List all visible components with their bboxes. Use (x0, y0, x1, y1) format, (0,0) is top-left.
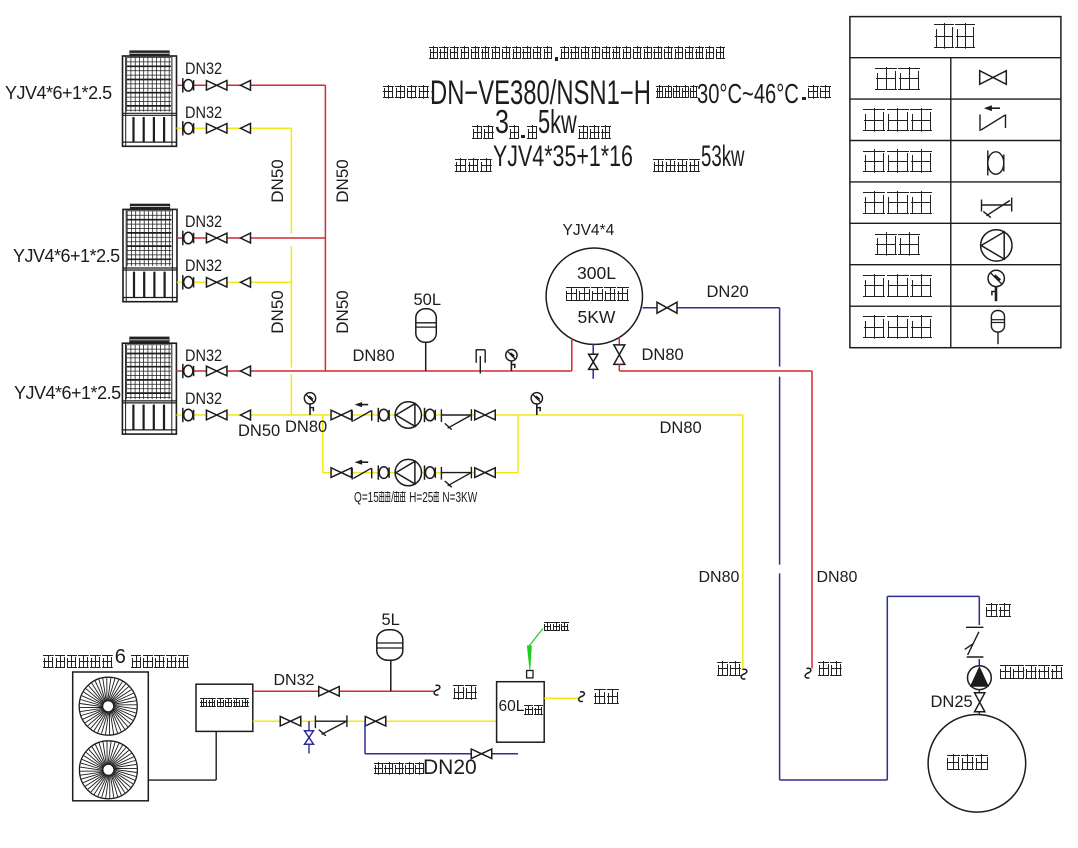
label indoor hydraulic module (200, 698, 250, 710)
pressure gauge on return header (left) (304, 393, 315, 404)
pipe HP1 supply stub (177, 84, 183, 86)
pipe HP3 return stub (176, 414, 182, 416)
pipe HP3 supply stub (176, 370, 182, 372)
wire: 50L tank stem to supply header (425, 343, 427, 371)
wire: auto make-up branch (blue) (365, 721, 518, 754)
flexible connection on HP1 return outlet (182, 121, 184, 135)
label DN32 HP2 supply (185, 214, 222, 231)
flexible connection before pump P2 (377, 465, 379, 479)
legend label: expansion tank (863, 315, 933, 343)
drain valve under tank (589, 354, 598, 362)
note line 2: model type (383, 85, 434, 101)
valve at outlet of pump P1 (475, 410, 485, 420)
expansion tank 50L (416, 309, 437, 343)
label DN32 HP2 return (185, 258, 222, 275)
tank outlet valve (black) (614, 345, 625, 355)
label (return water) at yellow drop (717, 661, 742, 680)
label 50L (414, 292, 442, 309)
legend label: valve (875, 67, 922, 95)
heat pump unit HP3 top cap (130, 337, 169, 343)
wire: 60L tank outlet (yellow) (544, 697, 579, 699)
wire: tank left connection (red) (571, 339, 573, 372)
label DN80 on supply drop (817, 570, 858, 587)
check valve of pump P1 (351, 410, 353, 422)
drain tee with small valve (blue) (308, 721, 310, 753)
valve on DN20 make-up line (657, 302, 667, 313)
label DN32 HP1 return (185, 105, 222, 122)
label DN50 rotated (red riser upper) (334, 159, 352, 202)
indoor hydraulic module box (196, 684, 253, 731)
label DN32 bottom (274, 673, 315, 690)
60L outlet squiggle (579, 692, 585, 702)
check valve on HP1 supply (241, 80, 251, 90)
wire: red header tank outlet to supply drop (619, 371, 812, 669)
flexible connection on HP3 supply outlet (182, 364, 184, 378)
heat pump unit HP3 casing (122, 343, 176, 434)
pressure gauge on supply header (506, 350, 517, 361)
check valve on HP3 return (241, 410, 251, 420)
wire: floor-heating return (yellow) (253, 720, 497, 722)
label YJV4*6+1*2.5 for HP2 (13, 247, 120, 266)
fan 1 of module (79, 677, 137, 735)
wire: 5L tank stem (390, 660, 392, 691)
check valve on HP1 return (241, 123, 251, 133)
label 60L tank (499, 701, 544, 715)
legend symbol: flexible connection (988, 151, 1004, 176)
label DN50 rotated (yellow riser upper) (269, 159, 287, 202)
note line 3: quantity (472, 115, 612, 139)
label DN32 HP3 return (185, 391, 222, 408)
check valve on HP2 supply (241, 233, 251, 243)
valve at inlet of pump P2 (331, 468, 341, 478)
label auto make-up valve (374, 762, 425, 778)
automatic air vent on supply header (476, 350, 486, 374)
heat pump unit HP1 casing (123, 56, 177, 146)
label DN80 right of tank (642, 347, 684, 364)
legend symbol: water pump (981, 230, 1012, 261)
heat pump unit HP2 coil grid (127, 211, 171, 266)
heat pump unit HP3 lower grille (122, 405, 176, 430)
label DN80 on return header right (660, 420, 702, 437)
label DN32 HP3 supply (185, 348, 222, 365)
Midea heat pump module cabinet (73, 672, 149, 801)
valve on HP1 supply (DN32) (206, 81, 216, 91)
tank text 5KW (578, 308, 616, 326)
pipe HP2 supply stub (177, 237, 183, 239)
label DN32 HP1 supply (185, 61, 222, 78)
label DN50 rotated (red riser lower) (334, 290, 352, 333)
wire: DN20 make-up line (blue) (643, 308, 980, 780)
pump branch upper connecting pipes (yellow) (323, 415, 518, 473)
label YJV4*4 above tank (563, 223, 615, 239)
wire: HP1 supply pipe to red riser (193, 84, 325, 86)
valve at outlet of pump P2 (475, 468, 485, 478)
legend label: flexible connection (863, 149, 933, 177)
label (return water) at 60L tank (594, 689, 620, 708)
label make-up water (986, 603, 1012, 620)
valve DN25 above make-up tank (975, 693, 985, 703)
heat pump unit HP1 coil grid (127, 58, 171, 112)
heat pump unit HP3 coil grid (127, 345, 171, 399)
supply end squiggle (805, 668, 811, 678)
label DN20 on make-up line (707, 284, 749, 301)
pipe HP2 return stub (177, 281, 183, 283)
legend label: strainer (863, 191, 933, 219)
label DN80 on supply header (353, 348, 395, 365)
label air vent (green) (544, 622, 570, 634)
label DN50 (HP3 return) (238, 423, 280, 440)
strainer after pump P2 (440, 467, 442, 480)
heat pump unit HP3 separator (122, 400, 176, 402)
valve on HP2 supply (DN32) (206, 233, 216, 243)
label make-up tank (947, 754, 990, 775)
main return header DN80 (yellow) (193, 415, 743, 670)
flexible connection on HP3 return outlet (182, 408, 184, 422)
label (supply water) at red drop (818, 661, 843, 680)
fan 2 of module (79, 741, 137, 799)
valve on HP1 return (DN32) (206, 124, 216, 134)
circulation pump pump P1 (395, 402, 421, 428)
tank text 300L (577, 264, 616, 282)
label YJV4*6+1*2.5 for HP3 (14, 384, 121, 403)
check valve of pump P2 (351, 468, 353, 480)
pressure gauge on return header (right) (531, 393, 542, 404)
valve on floor return (280, 716, 290, 726)
legend label: pressure gauge (863, 274, 933, 302)
heat pump unit HP2 top cap (131, 204, 170, 209)
yellow return riser DN50 (290, 128, 292, 415)
wire: make-up drop pipe (blue) (978, 596, 980, 714)
red supply riser DN50 (324, 85, 326, 371)
legend symbol: expansion tank (991, 311, 1004, 345)
flexible connection after pump P2 (424, 465, 426, 479)
check valve on HP3 supply (241, 366, 251, 376)
flexible connection before pump P1 (377, 408, 379, 422)
legend title (934, 23, 976, 54)
legend label: check valve (863, 108, 933, 136)
circulation pump pump P2 (395, 459, 421, 485)
strainer on floor return (314, 716, 316, 729)
wire: HP1 return pipe to yellow riser (193, 127, 291, 129)
make-up water tank (circle) (928, 715, 1026, 813)
60L buffer tank box (497, 682, 545, 743)
pipe HP1 return stub (177, 127, 183, 129)
check valve on HP2 return (241, 277, 251, 287)
small drain valve (305, 731, 314, 738)
tank text (electric heating water tank) (566, 287, 630, 306)
heat pump unit HP1 separator (123, 112, 177, 114)
label DN25 (931, 694, 973, 711)
pump duty text Q=15m3/h H=25m N=3KW (354, 490, 477, 506)
valve on HP3 supply (DN32) (206, 366, 216, 376)
flexible connection after pump P1 (424, 408, 426, 422)
note line 1 (design note) (429, 46, 726, 62)
main hot supply header DN80 (red) (193, 370, 572, 372)
flexible connection on HP2 supply outlet (182, 231, 184, 245)
flexible connection on HP1 supply outlet (182, 78, 184, 92)
pump branch infill pipes (yellow) (389, 415, 475, 473)
wire: module to cabinet (black) (148, 731, 216, 780)
label (supply water) bottom (453, 685, 478, 704)
heat pump unit HP2 separator (123, 267, 177, 269)
heat pump unit HP2 casing (123, 209, 177, 301)
legend table frame (850, 17, 1061, 348)
strainer on make-up line (965, 627, 984, 657)
tank drain pipe (blue) (592, 344, 594, 379)
booster pump (black triangle) (968, 666, 992, 690)
auto make-up valve DN20 (471, 749, 481, 759)
label YJV4*6+1*2.5 for HP1 (5, 84, 112, 103)
label Midea module title (43, 650, 190, 668)
valve on HP3 return (DN32) (206, 410, 216, 420)
label 5L (382, 612, 400, 629)
label DN50 rotated (yellow riser lower) (269, 290, 287, 333)
label DN20 big bottom (423, 757, 477, 779)
legend symbol: valve (980, 71, 993, 85)
expansion tank 5L (377, 630, 403, 661)
label DN80 (yellow riser bottom) (285, 419, 327, 436)
heat pump unit HP1 lower grille (123, 117, 177, 142)
wire: HP2 return pipe to yellow riser (193, 281, 291, 283)
legend symbol: strainer (982, 198, 1012, 218)
wire: floor-heating supply DN32 (red) (253, 690, 434, 692)
legend symbol: pressure gauge (988, 270, 1004, 301)
heat pump unit HP1 top cap (130, 51, 169, 56)
floor supply end squiggle (434, 685, 440, 695)
note line 4: main cable (455, 150, 771, 172)
label DN80 on return drop (699, 570, 740, 587)
wire: tank right connection lower stub (red) (618, 364, 620, 371)
flexible connection on HP2 return outlet (182, 275, 184, 289)
valve at inlet of pump P1 (331, 410, 341, 420)
heat pump unit HP2 lower grille (123, 272, 177, 298)
return end squiggle (741, 669, 747, 679)
wire: HP2 supply pipe to red riser (193, 237, 325, 239)
second valve on floor return (365, 716, 375, 726)
valve on HP2 return (DN32) (206, 278, 216, 288)
legend label: water pump (875, 232, 922, 260)
wire: tank right connection upper stub (red) (618, 337, 620, 345)
valve on floor supply (319, 687, 329, 697)
electric water tank 300L 5KW (546, 248, 642, 344)
legend symbol: check valve (980, 106, 1006, 131)
label booster make-up pump (1000, 665, 1064, 684)
strainer after pump P1 (440, 409, 442, 422)
air vent on 60L tank (green) (527, 628, 543, 678)
